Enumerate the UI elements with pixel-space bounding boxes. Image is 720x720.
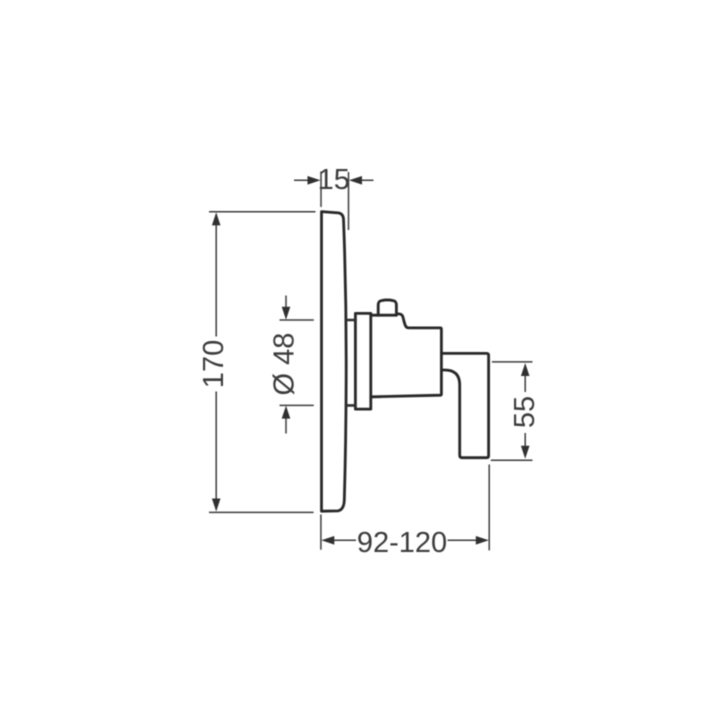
svg-text:170: 170 xyxy=(198,340,230,388)
svg-text:55: 55 xyxy=(509,396,541,428)
55 dimension line xyxy=(524,376,526,447)
170 bottom arrowhead xyxy=(212,499,221,512)
92-120 left extension line xyxy=(320,515,322,550)
diameter 48 bottom extension line xyxy=(280,404,314,406)
15 left extension line xyxy=(320,172,322,208)
svg-text:92-120: 92-120 xyxy=(357,527,447,559)
escutcheon plate (side view) xyxy=(322,212,347,512)
55 bottom extension line xyxy=(491,459,533,461)
cartridge barrel bottom edge xyxy=(346,404,355,407)
170 top arrowhead xyxy=(212,212,221,225)
lever handle xyxy=(441,353,488,457)
15 arrow shafts xyxy=(294,179,374,181)
valve body xyxy=(371,314,442,397)
svg-text:15: 15 xyxy=(318,164,350,196)
92-120 right extension line xyxy=(488,465,490,551)
92-120 left arrowhead xyxy=(321,536,334,545)
15 left arrowhead xyxy=(308,176,321,185)
diameter 48 top arrowhead xyxy=(282,307,291,320)
170 bottom extension line xyxy=(209,511,314,513)
cartridge barrel top edge xyxy=(346,319,355,322)
diameter 48 arrow shafts xyxy=(285,296,287,434)
svg-text:Ø 48: Ø 48 xyxy=(269,333,301,396)
diameter 48 bottom arrowhead xyxy=(282,406,291,419)
sleeve flange xyxy=(355,313,370,409)
170 top extension line xyxy=(209,211,316,213)
15 right extension line xyxy=(348,172,350,230)
55 top arrowhead xyxy=(521,363,530,376)
15 right arrowhead xyxy=(349,176,362,185)
92-120 right arrowhead xyxy=(476,536,489,545)
92-120 dimension line xyxy=(334,539,477,541)
55 top extension line xyxy=(492,361,533,363)
override button xyxy=(378,300,396,315)
55 bottom arrowhead xyxy=(521,446,530,459)
diameter 48 top extension line xyxy=(280,319,314,321)
170 dimension line xyxy=(215,214,217,510)
